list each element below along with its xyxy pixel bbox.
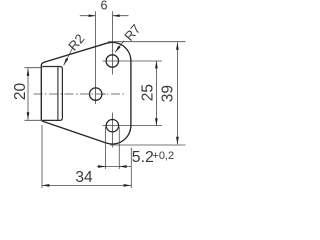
arrow 34 right: [124, 184, 131, 187]
top hole horizontal centerline + 25-dim extension: [103, 60, 162, 62]
dim 39 line: [176, 42, 178, 144]
hole bottom (d5.2): [106, 120, 118, 132]
svg-text:6: 6: [101, 0, 108, 13]
arrow 20 top: [27, 68, 30, 75]
arrow 39 bottom: [176, 137, 179, 144]
dim 39 extension bottom: [110, 144, 186, 146]
arrow 5.2 left: [98, 165, 105, 168]
dim 20 extension bottom: [25, 119, 44, 121]
arrow 39 top: [176, 42, 179, 49]
svg-text:25: 25: [140, 84, 157, 101]
arrow 25 bottom: [155, 118, 158, 125]
svg-text:34: 34: [75, 169, 93, 186]
R7 leader: [115, 41, 124, 53]
dim 20 line: [27, 68, 29, 119]
dim 34 line: [42, 184, 131, 186]
dim 20 extension top: [25, 67, 43, 69]
svg-text:5.2: 5.2: [132, 149, 154, 166]
R2 arrowhead: [63, 58, 69, 66]
dim 34 extension left: [41, 125, 43, 188]
dim 5.2 extension right (hole tangent): [118, 127, 120, 169]
centerline vertical holes + 6-dim extension (top segment): [112, 11, 114, 74]
dim 5.2 extension left (hole tangent): [105, 127, 107, 169]
right edge extension down: [130, 148, 132, 189]
dimension 6 line: [80, 15, 129, 17]
svg-text:39: 39: [159, 85, 176, 102]
hole top (d5.2): [106, 55, 118, 67]
centerline vertical holes (bottom segment): [112, 113, 114, 148]
hole middle (d5.2): [90, 88, 102, 100]
dim 5.2 line: [97, 166, 131, 168]
svg-text:+0,2: +0,2: [152, 150, 174, 162]
arrow 25 top: [155, 61, 158, 68]
arrow 20 bottom: [27, 112, 30, 119]
dim 39 extension top: [108, 41, 186, 43]
svg-text:20: 20: [12, 83, 29, 101]
arrow 6 left: [89, 14, 96, 17]
bottom hole horizontal centerline + 25-dim extension: [103, 125, 162, 127]
bend/flange tab inner outline: [42, 67, 62, 121]
middle hole vertical centerline + 6-dim extension: [94, 11, 96, 104]
middle hole horizontal crosshair is main centerline; extra left tick: [103, 93, 106, 95]
dim 25 line: [155, 61, 157, 126]
arrow 5.2 right: [119, 165, 126, 168]
arrow 34 left: [42, 184, 49, 187]
R2 leader: [64, 48, 73, 65]
arrow 6 right: [113, 14, 120, 17]
R7 arrowhead: [114, 46, 121, 54]
bend tangent line: [57, 67, 59, 120]
part outline: [41, 42, 131, 144]
centerline horizontal (middle hole axis): [34, 93, 127, 95]
